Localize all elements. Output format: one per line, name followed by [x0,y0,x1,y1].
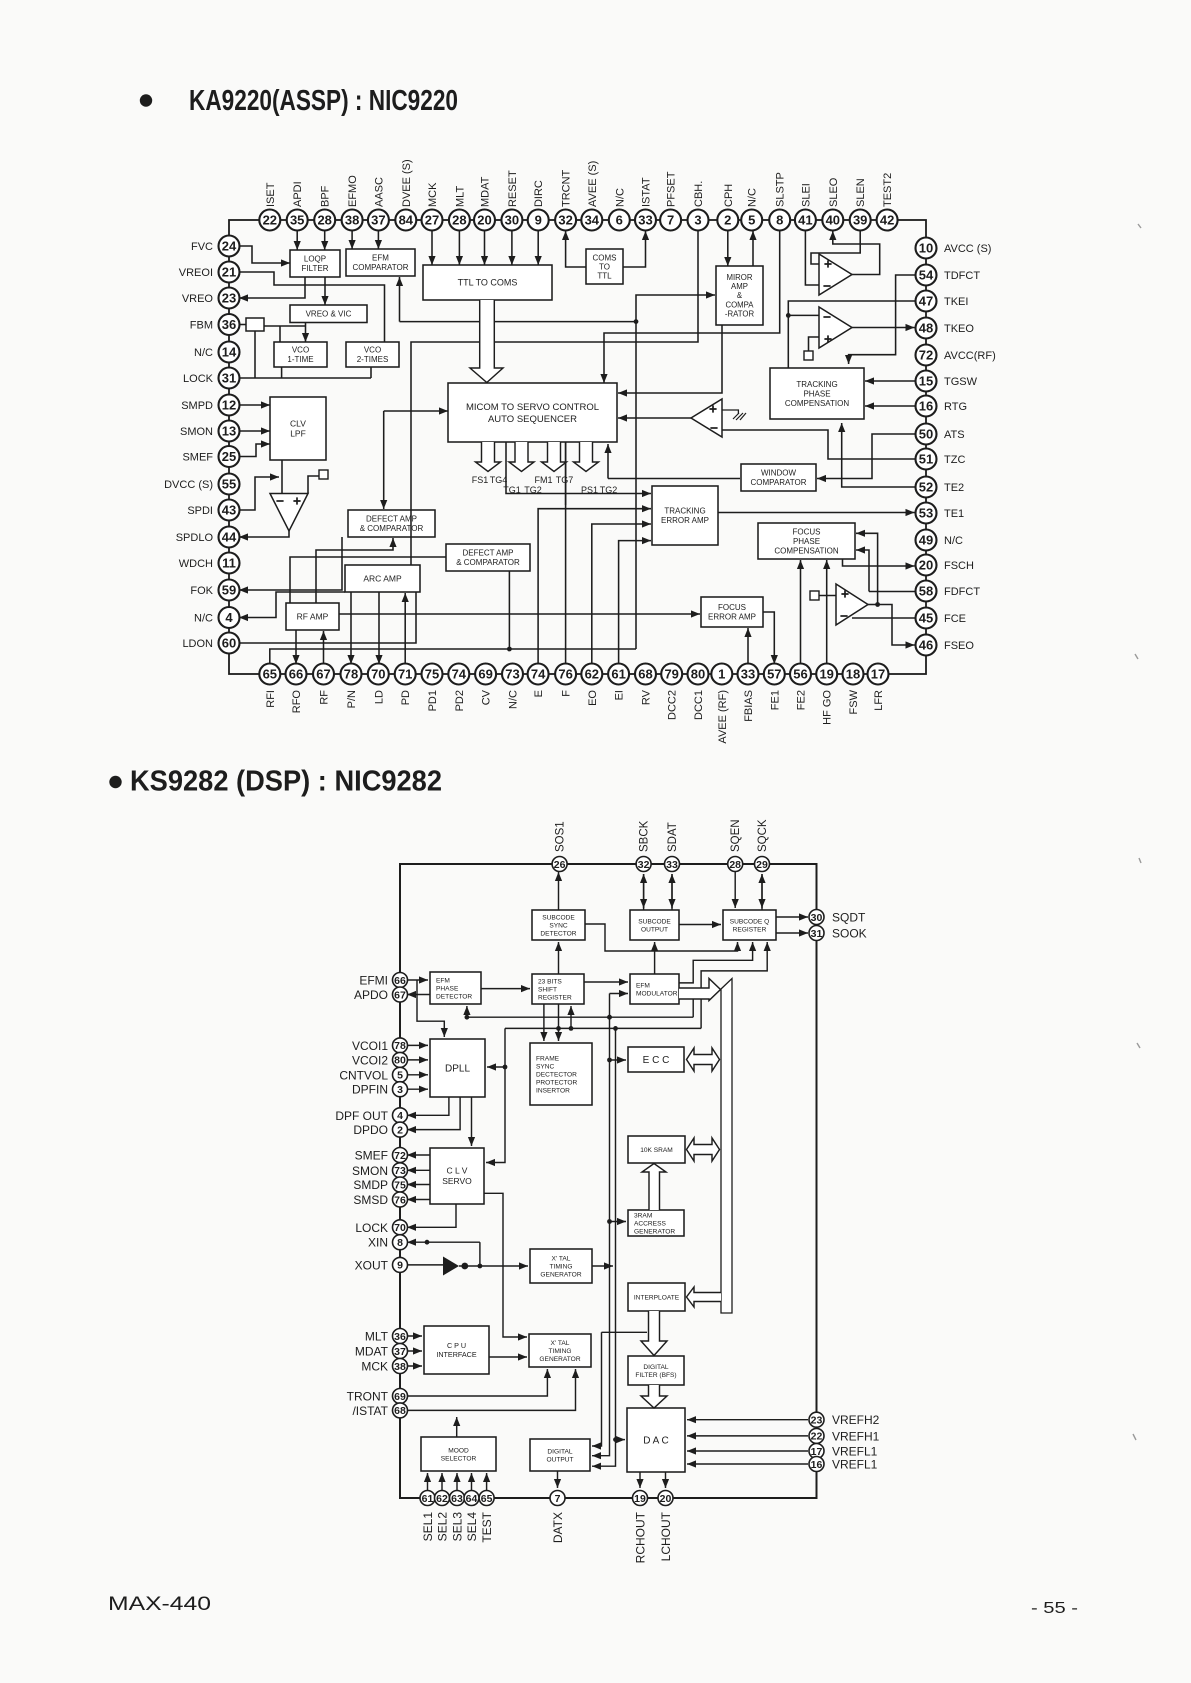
svg-text:24: 24 [222,239,237,254]
svg-text:1: 1 [718,667,725,682]
svg-text:SPDI: SPDI [187,505,213,517]
wire 23 BITS SHIFT REGISTER to FRAME SYNC 2 [555,1004,562,1041]
pin 79 DCC2 [661,664,682,685]
svg-text:28: 28 [317,213,331,228]
pin 20 FSCH [916,555,937,576]
wire op-amp U6 output [868,604,878,606]
svg-text:47: 47 [919,294,933,309]
svg-text:MDAT: MDAT [355,1345,389,1359]
svg-text:ISET: ISET [265,182,277,207]
block FOCUS PHASE COMPENSATION [758,523,855,559]
svg-text:CV: CV [481,689,493,705]
wire rail A to ECC [610,1056,627,1063]
wire pin 76 F riser over arrow [565,442,567,505]
pin 5 N/C [741,210,762,231]
svg-text:TIMING: TIMING [549,1263,572,1270]
IC U10 KS9282 outer boundary [400,864,817,1498]
wire FBM square to VCO feed [264,325,306,327]
wire CLV SERVO to XTAL TIMING GENERATOR 2 [484,1193,527,1340]
svg-text:APDO: APDO [354,988,388,1002]
svg-text:68: 68 [638,667,652,682]
pin 48 TKEO [916,318,937,339]
svg-text:DATX: DATX [551,1512,565,1543]
block EFM PHASE DETECTOR [430,972,481,1004]
pin 7 PFSET [660,210,681,231]
pin 19 RCHOUT [633,1491,648,1506]
pin 31 LOCK [219,368,240,389]
wire pin 23 VREF to DAC [687,1416,808,1423]
svg-text:SMPD: SMPD [181,400,213,412]
pin 74 E [528,664,549,685]
scan speck 5 [1133,1434,1136,1440]
svg-text:TRACKING: TRACKING [796,380,837,389]
pin 62 EO [581,664,602,685]
svg-text:27: 27 [425,213,439,228]
pin 7 DATX [550,1491,565,1506]
pin 70 LD [368,664,389,685]
svg-text:EI: EI [614,690,626,700]
wire node A to MIROR AMP [636,291,715,649]
svg-text:MIROR: MIROR [727,273,753,282]
svg-text:TTL TO COMS: TTL TO COMS [458,278,518,288]
pin 3 CBH. [688,210,709,231]
svg-text:8: 8 [776,213,783,228]
svg-text:OUTPUT: OUTPUT [641,926,668,933]
svg-text:31: 31 [811,928,823,940]
wire bus line to SUBCODE Q REGISTER 3 [701,942,771,1028]
wire CLV SERVO to pin 70 LOCK [407,1204,456,1231]
pin 2 CPH [717,210,738,231]
svg-text:SLEI: SLEI [800,183,812,207]
pin 4 N/C [219,607,240,628]
svg-text:80: 80 [691,667,705,682]
hollow double arrow ECC to bus [687,1048,720,1071]
svg-text:19: 19 [819,667,833,682]
op-amp U2 minus [823,285,830,287]
svg-text:SLEN: SLEN [855,178,867,207]
square node at op-amp U5 [319,470,328,479]
block DEFECT AMP & COMPARATOR 1 [348,510,435,537]
svg-text:37: 37 [371,213,385,228]
svg-text:SUBCODE: SUBCODE [638,918,671,925]
pin 16 VREFL1 [809,1457,824,1472]
svg-text:TGSW: TGSW [944,376,978,388]
wire FDFCT to FOCUS PHASE COMPENSATION in 2 [856,546,869,591]
svg-text:COMPARATOR: COMPARATOR [750,478,806,487]
block CPU INTERFACE [424,1326,489,1374]
svg-text:XIN: XIN [368,1236,388,1250]
svg-text:7: 7 [667,213,674,228]
svg-text:INTERPLOATE: INTERPLOATE [634,1294,680,1301]
svg-text:2-TIMES: 2-TIMES [357,355,389,364]
wire DAC to pin 19 RCHOUT [636,1472,643,1488]
wire SEL pin to MOOD SELECTOR at 442 [438,1473,445,1490]
wire pin 76 F to MICOM [565,442,567,664]
wire pin 66 EFMI to EFM PHASE DETECTOR [406,976,429,983]
wire DIRC to TTL TO COMS [535,230,542,265]
wire op-amp U6 feedback to FOCUS PHASE COMPENSATION in 1 [856,530,880,607]
svg-text:SQEN: SQEN [730,819,742,852]
pin 73 N/C [502,664,523,685]
wire SEL pin to MOOD SELECTOR at 486.6 [483,1473,490,1490]
svg-text:ATS: ATS [944,429,965,441]
wire COMS TO TTL to pin 33 ISTAT [623,231,649,267]
svg-text:LDON: LDON [182,638,213,650]
svg-text:SEL3: SEL3 [451,1512,465,1542]
svg-text:AVCC(RF): AVCC(RF) [944,350,996,362]
pin 23 VREFH2 [809,1412,824,1427]
pin 80 DCC1 [688,664,709,685]
square node at op-amp U3 [804,351,813,360]
wire ARC AMP to pin 78 P/N [347,592,354,664]
wire MCK to TTL TO COMS [428,230,435,265]
svg-text:12: 12 [222,398,236,413]
svg-text:FM1: FM1 [535,475,553,485]
wire SUBCODE SYNC DETECTOR to pin 26 SOS1 [555,872,562,910]
svg-text:RFI: RFI [265,690,277,708]
wire CLV SERVO to pin at 1170.3 [407,1167,430,1174]
svg-text:33: 33 [741,667,755,682]
svg-text:DPFIN: DPFIN [352,1083,388,1097]
pin 64 SEL4 [464,1491,479,1506]
wire WINDOW COMPARATOR output [608,478,740,480]
svg-text:62: 62 [585,667,599,682]
wire SUBCODE OUTPUT to SUBCODE Q REGISTER [679,921,721,928]
svg-text:MCK: MCK [361,1360,388,1374]
wire pin 47 TKEI [786,301,916,368]
block COMS TO TTL [586,249,623,284]
wire CLV SERVO to pin at 1184.5 [407,1181,430,1188]
op-amp U4 minus [710,427,717,429]
svg-text:APDI: APDI [292,181,304,207]
wire pin 58 FDFCT [869,591,916,593]
svg-text:23 BITS: 23 BITS [538,978,562,985]
wire SUBCODE Q REGISTER to pin 29 SQCK [758,874,765,910]
svg-text:N/C: N/C [944,535,963,547]
svg-text:VREFH1: VREFH1 [832,1429,880,1443]
wire ARC AMP to pin 70 LD [375,592,382,664]
svg-text:INTERFACE: INTERFACE [436,1350,477,1359]
junction dot after buffer [461,1263,468,1270]
svg-text:4: 4 [397,1110,403,1122]
svg-text:84: 84 [399,213,414,228]
wire pin 33 FBIAS to FOCUS ERROR AMP [744,628,751,664]
wire MICOM to TRACKING ERROR AMP in 1 [506,442,651,497]
svg-text:56: 56 [793,667,807,682]
svg-text:VREFL1: VREFL1 [832,1458,878,1472]
wire FOCUS PHASE COMPENSATION to pin 20 FSCH [843,559,915,570]
svg-text:SEL1: SEL1 [421,1512,435,1542]
wire CLV SERVO to pin at 1155 [407,1151,430,1158]
wire RF AMP to DEFECT AMP 2 [290,557,446,603]
wire EFM MODULATOR to SUBCODE Q REGISTER 2 [679,942,756,983]
wire pin 29 to SUBCODE Q REGISTER [758,874,765,908]
svg-text:TRONT: TRONT [347,1390,389,1404]
svg-text:8: 8 [397,1237,403,1249]
pin 30 SQDT [809,910,824,925]
wire pin 22 VREF to DAC [687,1432,808,1439]
wire pin 62 EO to TRACKING ERROR AMP in 3 [592,520,651,664]
wire VREO & VIC to VCO 1-TIME [302,323,309,343]
svg-text:SEL4: SEL4 [465,1512,479,1542]
block XTAL TIMING GENERATOR 1 [530,1249,592,1283]
hollow arrow MICOM test output 2 [509,442,534,472]
svg-text:TZC: TZC [944,454,965,466]
svg-text:54: 54 [919,268,934,283]
svg-text:FOK: FOK [190,585,213,597]
scan speck 4 [1137,1043,1140,1048]
svg-text:AVCC (S): AVCC (S) [944,243,991,255]
svg-text:FVC: FVC [191,241,213,253]
svg-text:2: 2 [397,1124,403,1136]
pin 57 FE1 [764,664,785,685]
svg-text:- 55 -: - 55 - [1031,1600,1078,1617]
svg-text:N/C: N/C [194,347,213,359]
pin 8 SLSTP [769,210,790,231]
pin 78 P/N [341,664,362,685]
wire 23 BITS SHIFT REGISTER to EFM MODULATOR [584,978,628,985]
svg-text:49: 49 [919,533,933,548]
svg-text:SPDLO: SPDLO [176,532,214,544]
svg-text:DPDO: DPDO [353,1123,388,1137]
pin 2 DPDO [393,1122,408,1137]
svg-text:30: 30 [505,213,519,228]
svg-text:3: 3 [397,1084,403,1096]
svg-text:MDAT: MDAT [480,176,492,207]
svg-text:34: 34 [585,213,600,228]
svg-text:67: 67 [316,667,330,682]
pin 31 SOOK [809,926,824,941]
pin 22 ISET [259,210,280,231]
wire EFM PHASE DETECTOR to pin 67 APDO [407,991,430,998]
op-amp U6 plus [841,590,848,597]
svg-text:FBIAS: FBIAS [743,690,755,722]
svg-text:RV: RV [641,689,653,705]
wire rail C [592,1332,602,1449]
svg-text:TRCNT: TRCNT [561,169,573,207]
svg-text:D A C: D A C [643,1436,669,1447]
svg-text:SHIFT: SHIFT [538,986,557,993]
svg-text:FCE: FCE [944,613,966,625]
svg-text:51: 51 [919,452,933,467]
svg-text:78: 78 [344,667,358,682]
svg-text:64: 64 [466,1493,478,1505]
svg-text:VREOI: VREOI [179,267,213,279]
svg-text:MICOM TO SERVO CONTROL: MICOM TO SERVO CONTROL [466,402,599,413]
pin 38 MCK [393,1359,408,1374]
pin 70 LOCK [393,1220,408,1235]
svg-text:78: 78 [394,1040,406,1052]
svg-text:COMPENSATION: COMPENSATION [774,546,839,555]
pin 68 /ISTAT [393,1403,408,1418]
wire op-amp U6 to pin 45 FCE [852,617,916,619]
wire to pin 8 XIN [407,1239,480,1246]
svg-text:HF GO: HF GO [822,690,834,725]
wire RF AMP to DEFECT AMP 1 [316,538,397,603]
svg-text:60: 60 [222,636,236,651]
block ARC AMP [345,565,420,592]
svg-text:22: 22 [811,1431,823,1443]
svg-text:EO: EO [587,690,599,706]
pin 22 VREFH1 [809,1428,824,1443]
pin 75 SMDP [393,1177,408,1192]
pin 18 FSW [843,664,864,685]
svg-text:72: 72 [919,348,933,363]
svg-text:DECTECTOR: DECTECTOR [536,1071,577,1078]
svg-text:MCK: MCK [427,182,439,207]
block 10K SRAM [628,1136,685,1163]
wire SUBCODE Q REGISTER to pin 30 SQDT [776,913,808,920]
pin 40 SLEO [822,210,843,231]
svg-text:TIMING: TIMING [548,1348,571,1355]
svg-text:SYNC: SYNC [549,922,568,929]
wire square to op-amp U5 [308,476,319,493]
pin 65 RFI [259,664,280,685]
svg-text:TDFCT: TDFCT [944,270,980,282]
svg-text:LOCK: LOCK [183,373,214,385]
svg-text:EFMO: EFMO [347,175,359,207]
pin 39 SLEN [850,210,871,231]
wire op-amp U4 output to MICOM input 2 [618,414,691,421]
wire line2 to 23 BITS SHIFT REGISTER [567,1006,574,1028]
svg-text:FS1: FS1 [472,475,489,485]
pin 46 FSEO [916,635,937,656]
svg-text:67: 67 [394,989,406,1001]
svg-text:FDFCT: FDFCT [944,586,980,598]
block MICOM TO SERVO CONTROL AUTO SEQUENCER [448,383,617,442]
pin 36 MLT [393,1329,408,1344]
pin 66 EFMI [393,973,408,988]
wire SEL pin to MOOD SELECTOR at 471.5 [468,1473,475,1490]
svg-text:REGISTER: REGISTER [733,926,767,933]
pin 59 FOK [219,580,240,601]
pin 62 SEL2 [435,1491,450,1506]
hollow double arrow 10K SRAM to bus [687,1138,720,1161]
svg-text:TE1: TE1 [944,508,964,520]
wire DEFECT AMP 2 output tap [508,571,510,649]
pin 80 VCOI2 [393,1052,408,1067]
svg-text:FE1: FE1 [769,690,781,710]
svg-text:ERROR AMP: ERROR AMP [661,516,709,525]
svg-text:TE2: TE2 [944,482,964,494]
svg-text:6: 6 [616,213,623,228]
block MIROR AMP & COMPARATOR [716,266,763,325]
svg-text:16: 16 [811,1459,823,1471]
svg-text:DCC1: DCC1 [693,690,705,720]
pin 74 PD2 [448,664,469,685]
svg-text:FE2: FE2 [796,690,808,710]
svg-text:36: 36 [222,317,236,332]
hollow arrow MICOM test output 4 [574,442,599,472]
svg-text:SMEF: SMEF [355,1149,388,1163]
op-amp U5 plus [293,497,300,504]
wire RF AMP to pin 66 RFO [292,630,299,664]
svg-text:VCOI1: VCOI1 [352,1039,388,1053]
svg-text:38: 38 [345,213,359,228]
wire rail A to EFM MODULATOR [610,990,629,997]
block RF AMP [286,603,339,630]
svg-text:74: 74 [452,667,467,682]
wire FVC pin 24 to LOQP FILTER [239,246,290,267]
pin 13 SMON [219,421,240,442]
wire LDON pin 60 to ARC AMP [239,592,416,643]
block WINDOW COMPARATOR [741,464,816,491]
svg-text:C P U: C P U [447,1341,466,1350]
svg-text:PD1: PD1 [427,690,439,711]
svg-text:DETECTOR: DETECTOR [436,993,472,1000]
pin 41 SLEI [795,210,816,231]
pin 32 TRCNT [555,210,576,231]
svg-text:DETECTOR: DETECTOR [540,930,576,937]
svg-text:CBH.: CBH. [693,181,705,207]
pin 12 SMPD [219,395,240,416]
svg-text:N/C: N/C [194,613,213,625]
wire XIN riser [478,1242,483,1268]
wire pin to DPLL at 1045.4 [406,1042,429,1049]
wire CPH pin 2 to MIROR AMP [724,230,731,266]
wire pin 32 to SUBCODE OUTPUT [640,874,647,908]
svg-text:-RATOR: -RATOR [725,310,755,319]
svg-text:N/C: N/C [508,690,520,709]
block ECC [628,1047,684,1072]
svg-text:LCHOUT: LCHOUT [659,1511,673,1561]
wire COMS TO TTL to pin 32 TRCNT [562,231,586,267]
wire FOCUS ERROR AMP to pin 57 FE1 [763,612,778,664]
wire line1 riser [692,999,694,1017]
svg-text:16: 16 [919,399,933,414]
svg-text:32: 32 [638,859,650,871]
wire pin 51 TZC to op-amp U4 - input [722,430,916,459]
wire pin 69 TRONT to XTAL TIMING GENERATOR 2 [406,1369,552,1396]
hollow arrow DIGITAL FILTER to DAC [641,1385,667,1408]
svg-text:74: 74 [531,667,546,682]
svg-text:SOS1: SOS1 [555,821,567,852]
svg-text:70: 70 [394,1222,406,1234]
svg-text:RCHOUT: RCHOUT [634,1511,648,1563]
pin 33 FBIAS [738,664,759,685]
svg-text:TEST2: TEST2 [882,173,894,207]
svg-text:AVEE (RF): AVEE (RF) [717,690,729,744]
wire node A horizontal [400,319,639,324]
wire pin 16 VREF to DAC [687,1460,808,1467]
svg-text:VREO & VIC: VREO & VIC [306,310,352,319]
pin 66 RFO [286,664,307,685]
svg-text:DVEE (S): DVEE (S) [401,159,413,207]
ground symbol at op-amp U4 [722,410,746,420]
pin 72 SMEF [393,1148,408,1163]
svg-text:52: 52 [919,480,933,495]
svg-text:& COMPARATOR: & COMPARATOR [360,524,424,533]
svg-text:MLT: MLT [454,186,466,207]
svg-text:10K SRAM: 10K SRAM [640,1147,673,1154]
svg-text:69: 69 [394,1391,406,1403]
svg-text:AMP: AMP [731,282,748,291]
wire rail A [592,994,612,1460]
wire pin to DPLL at 1074.8 [406,1071,429,1078]
wire FBM pin 36 to square [239,324,246,326]
wire DAC to pin 20 LCHOUT [662,1472,669,1488]
svg-text:FSCH: FSCH [944,560,974,572]
pin 42 TEST2 [877,210,898,231]
pin 3 DPFIN [393,1082,408,1097]
pin 29 SQCK [755,857,770,872]
svg-text:WDCH: WDCH [179,558,213,570]
wire line1 horizontal [465,1015,694,1020]
hollow arrow MICOM test output 3 [542,442,567,472]
heading bullet 2 [109,776,121,788]
svg-text:MAX-440: MAX-440 [108,1594,211,1615]
wire FBM branch to VCO 1-TIME [279,326,281,342]
